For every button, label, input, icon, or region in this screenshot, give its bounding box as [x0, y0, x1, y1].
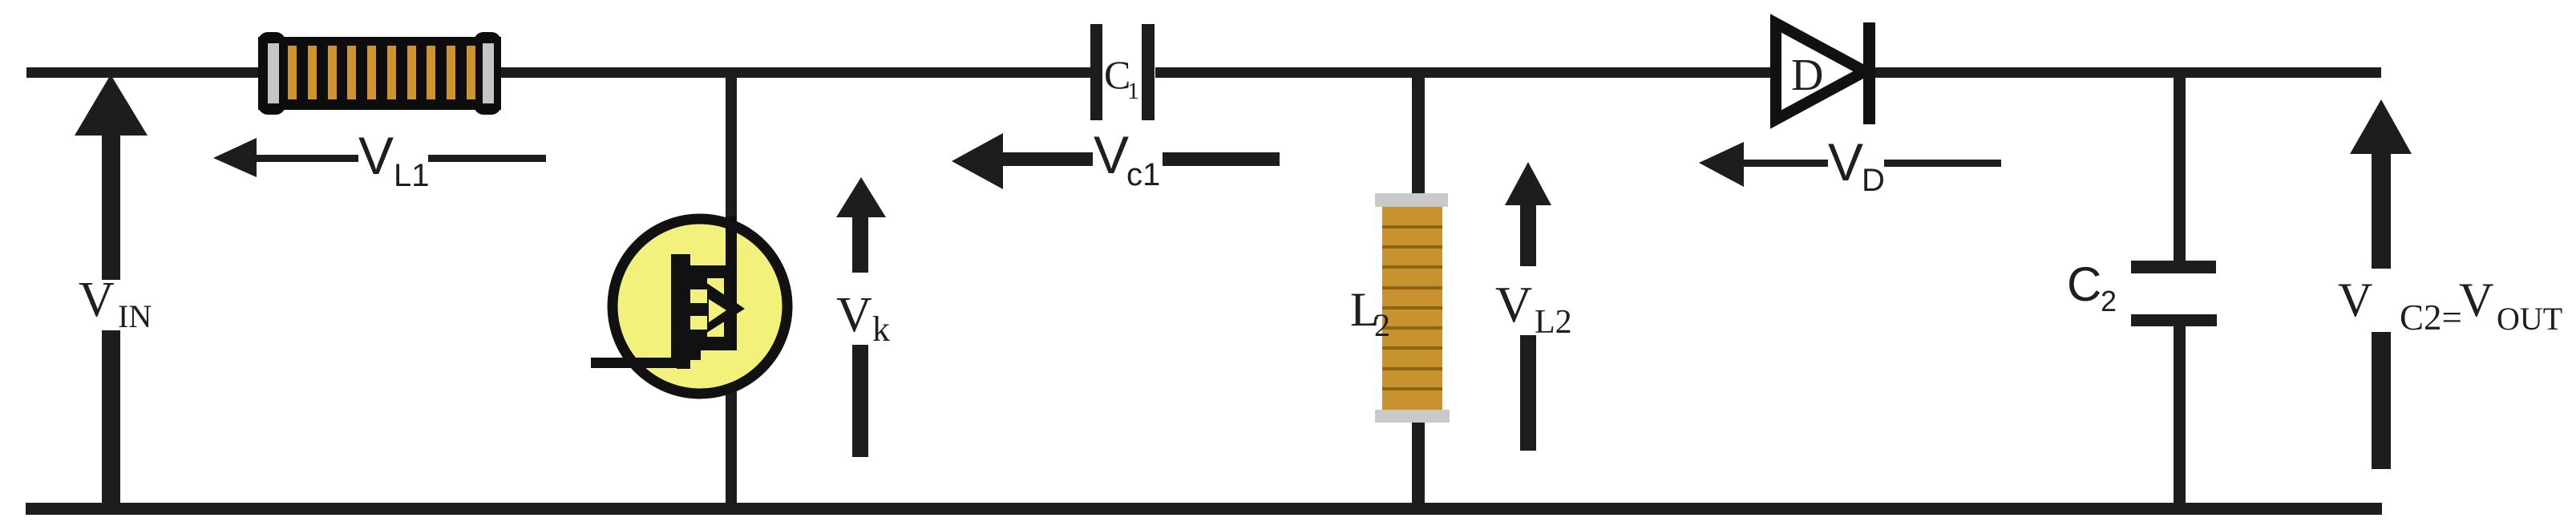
svg-text:C2=: C2=	[2400, 297, 2462, 338]
arrow Vk up	[836, 177, 886, 457]
svg-text:V: V	[358, 126, 394, 185]
svg-text:V: V	[1495, 276, 1532, 333]
capacitor C1	[1090, 24, 1155, 120]
label L2	[1350, 283, 1390, 343]
svg-text:V: V	[2338, 273, 2372, 326]
svg-text:D: D	[1862, 163, 1885, 198]
wire L2 top stem	[1412, 77, 1425, 193]
arrow VD left	[1699, 142, 2001, 187]
svg-text:k: k	[872, 310, 890, 349]
svg-text:V: V	[2459, 273, 2493, 326]
arrow VL2 up	[1505, 162, 1551, 451]
wire bottom rail	[26, 503, 2382, 515]
svg-text:2: 2	[2101, 285, 2117, 318]
wire top rail right segment	[1870, 67, 2381, 78]
inductor L1	[258, 32, 501, 115]
arrow VC2 up	[2350, 99, 2412, 469]
label VIN	[79, 273, 152, 334]
label VL1	[358, 126, 430, 193]
svg-text:V: V	[1828, 132, 1863, 192]
svg-text:OUT: OUT	[2497, 301, 2562, 337]
svg-text:D: D	[1791, 51, 1823, 100]
svg-text:V: V	[1094, 125, 1129, 184]
svg-text:c1: c1	[1126, 157, 1160, 192]
arrow VL1 left	[213, 138, 546, 177]
label Vc1	[1094, 125, 1160, 192]
label C1	[1104, 52, 1139, 104]
wire C2 top stem	[2174, 77, 2186, 261]
svg-text:V: V	[836, 288, 872, 342]
wire mosfet drain	[726, 77, 737, 279]
label VL2	[1495, 276, 1572, 341]
label VD	[1828, 132, 1885, 198]
svg-text:1: 1	[1127, 78, 1139, 104]
svg-text:V: V	[79, 273, 115, 327]
arrow VIN up	[75, 75, 148, 504]
svg-text:L1: L1	[394, 158, 430, 193]
wire top rail left segment	[26, 67, 1090, 78]
wire C2 bottom stem	[2174, 326, 2186, 504]
label C2	[2067, 257, 2117, 318]
transistor Q1 mosfet	[591, 216, 787, 394]
inductor L2	[1375, 193, 1450, 423]
wire top rail middle segment	[1155, 67, 1776, 78]
svg-text:2: 2	[1374, 307, 1390, 343]
svg-text:L2: L2	[1535, 304, 1572, 341]
svg-text:C: C	[2067, 257, 2101, 311]
diode D	[1776, 22, 1875, 124]
label VC2 equals VOUT	[2338, 273, 2562, 338]
wire mosfet source	[726, 350, 737, 504]
wire L2 bottom stem	[1412, 423, 1425, 504]
capacitor C2	[2131, 261, 2217, 326]
arrow Vc1 left	[952, 133, 1280, 189]
label Vk	[836, 288, 890, 349]
svg-text:IN: IN	[118, 298, 152, 334]
